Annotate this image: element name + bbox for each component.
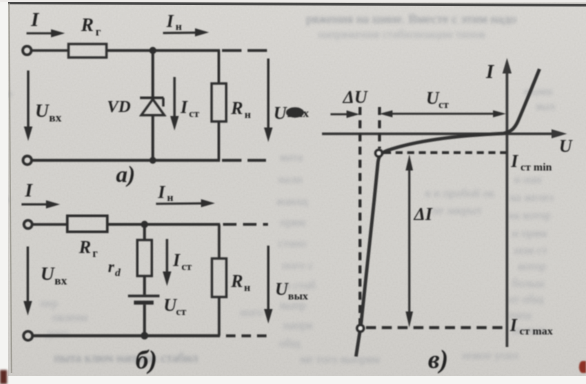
wire top to load resistor Rn (circuit a) <box>218 51 221 84</box>
label I_st_min <box>510 151 552 174</box>
svg-text:н: н <box>167 192 174 204</box>
svg-text:U: U <box>35 101 50 122</box>
wire terminal to resistor Rg (circuit a) <box>32 49 69 52</box>
resistor Rg (circuit b) <box>67 216 107 232</box>
junction node bottom (circuit a) <box>149 157 156 164</box>
svg-text:ст min: ст min <box>521 162 552 174</box>
arrow for current I (circuit b) <box>22 200 61 208</box>
svg-text:ΔU: ΔU <box>342 87 368 107</box>
svg-text:I: I <box>166 11 175 31</box>
wire battery to bottom node (circuit b) <box>143 305 146 336</box>
svg-text:U: U <box>275 279 289 299</box>
arrow for current I_n (circuit a) <box>163 28 209 36</box>
I axis <box>502 58 511 347</box>
wire terminal to Rg (circuit b) <box>32 223 67 226</box>
svg-text:г: г <box>93 248 98 260</box>
input terminal top-left (circuit a) <box>23 46 32 55</box>
arrow U_out (circuit a) <box>264 59 273 143</box>
svg-text:в): в) <box>428 345 448 374</box>
dashed wire bottom right (circuit b) <box>226 334 270 337</box>
label U_out (circuit a, smudged subscript) <box>274 103 309 123</box>
resistor rd (dynamic resistance, circuit b) <box>137 240 152 276</box>
resistor Rn (load, circuit b) <box>212 259 227 298</box>
wire Rn to bottom (circuit b) <box>218 297 221 336</box>
label I_st (circuit b) <box>172 250 192 273</box>
svg-text:ст: ст <box>176 306 187 318</box>
zener V-I characteristic curve <box>356 69 540 357</box>
svg-text:I: I <box>157 182 166 202</box>
label I_st (circuit a) <box>180 97 200 120</box>
U axis <box>322 129 567 138</box>
white page margins <box>0 0 8 384</box>
resistor Rg (ballast, circuit a) <box>69 44 107 58</box>
svg-text:I: I <box>510 151 519 171</box>
junction node top (circuit a) <box>149 47 156 54</box>
label U_in (circuit a) <box>35 101 61 125</box>
svg-text:I: I <box>485 61 495 83</box>
svg-text:вх: вх <box>49 111 61 125</box>
battery U_st (equivalent source, circuit b) <box>128 296 160 303</box>
label I_st_max <box>509 315 553 338</box>
bottom wire (circuit b) <box>33 334 220 337</box>
label U_st (graph) <box>426 88 449 111</box>
dashed wire bottom right (circuit a) <box>222 159 266 162</box>
svg-text:d: d <box>115 267 121 279</box>
svg-text:а): а) <box>116 162 135 187</box>
wire rd to battery (circuit b) <box>143 276 146 295</box>
arrow for current I_n (circuit b) <box>156 199 215 207</box>
node I_st_max (marker) <box>357 325 364 332</box>
junction node bottom (circuit b) <box>141 332 149 340</box>
resistor Rn (load, circuit a) <box>212 84 227 122</box>
svg-text:ΔI: ΔI <box>413 204 433 224</box>
label Rg (circuit a) <box>80 15 102 39</box>
svg-text:вых: вых <box>288 291 309 303</box>
wire Rn to bottom (circuit a) <box>218 122 221 161</box>
arrow I_st (circuit b) <box>163 239 172 286</box>
arrow U_out (circuit b) <box>264 246 273 324</box>
svg-text:б): б) <box>136 346 158 375</box>
svg-text:I: I <box>180 97 189 117</box>
bottom wire (circuit a) <box>32 159 220 162</box>
label I_n (circuit b) <box>157 182 174 204</box>
svg-text:r: r <box>108 259 115 276</box>
svg-text:R: R <box>230 271 243 291</box>
svg-text:I: I <box>30 9 40 31</box>
svg-text:н: н <box>245 109 252 121</box>
wire top node to zener VD (circuit a) <box>151 51 154 98</box>
wire Rg to node (circuit b) <box>107 223 220 226</box>
svg-text:ст: ст <box>189 108 200 120</box>
svg-text:н: н <box>176 21 183 33</box>
label U_st (battery value, circuit b) <box>164 295 187 318</box>
arrow dI (dimension, double headed) <box>406 155 413 328</box>
label Rn (circuit b) <box>230 271 251 294</box>
label Rg (circuit b) <box>78 237 98 260</box>
arrow U_in (circuit a) <box>24 71 33 142</box>
bottom terminal (circuit b) <box>24 331 33 340</box>
label Rn (circuit a) <box>230 98 252 121</box>
left photo border <box>9 3 12 373</box>
wire node to resistor rd (circuit b) <box>143 224 146 240</box>
svg-text:R: R <box>78 237 91 257</box>
dashed wire top right (circuit b) <box>223 223 268 226</box>
label I (input current, circuit a) <box>30 9 40 31</box>
bottom-left terminal (circuit a) <box>23 156 32 165</box>
dashed construction line U_st_max (left vertical) <box>359 107 362 325</box>
arrow dU (dimension) <box>331 110 360 118</box>
svg-text:R: R <box>80 15 94 36</box>
top photo border <box>7 3 586 5</box>
svg-text:ст: ст <box>182 261 193 273</box>
input terminal (circuit b) <box>24 220 32 228</box>
svg-text:U: U <box>274 103 288 123</box>
arrow U_st (dimension, double headed) <box>380 110 507 117</box>
dashed construction line U_st_min (right vertical) <box>378 107 381 149</box>
svg-text:VD: VD <box>107 97 131 116</box>
svg-text:г: г <box>96 25 102 39</box>
dashed line I_st_max <box>366 326 507 329</box>
label U_out (circuit b) <box>275 279 309 303</box>
label I_n (load current, circuit a) <box>166 11 183 33</box>
svg-text:U: U <box>559 136 573 156</box>
svg-text:R: R <box>230 98 243 118</box>
svg-text:I: I <box>24 181 33 202</box>
dark corner mark bottom-left <box>0 370 7 384</box>
svg-text:I: I <box>509 315 518 335</box>
red ink blob right edge <box>579 361 586 373</box>
dashed wire top right (circuit a) <box>222 49 269 52</box>
junction node top (circuit b) <box>141 221 148 228</box>
arrow U_in (circuit b) <box>24 247 33 316</box>
svg-text:ст max: ст max <box>520 326 554 338</box>
svg-text:ст: ст <box>439 99 450 111</box>
svg-text:вх: вх <box>55 274 67 288</box>
dashed line I_st_min <box>384 151 506 154</box>
node I_st_min (knee point marker) <box>376 150 383 157</box>
wire zener to bottom node (circuit a) <box>151 115 154 160</box>
svg-text:U: U <box>41 264 56 285</box>
label U_in (circuit b) <box>41 264 67 288</box>
arrow I_st (zener current, circuit a) <box>170 77 179 131</box>
label rd (circuit b) <box>108 259 121 279</box>
zener diode VD (circuit a) <box>140 98 164 115</box>
wire Rg to top node (circuit a) <box>107 49 221 52</box>
svg-text:н: н <box>244 282 251 294</box>
wire top to load Rn (circuit b) <box>218 224 221 258</box>
blurred background text (page bleed-through) <box>306 11 516 27</box>
arrow for current I (circuit a) <box>27 29 66 37</box>
svg-text:I: I <box>172 250 181 270</box>
